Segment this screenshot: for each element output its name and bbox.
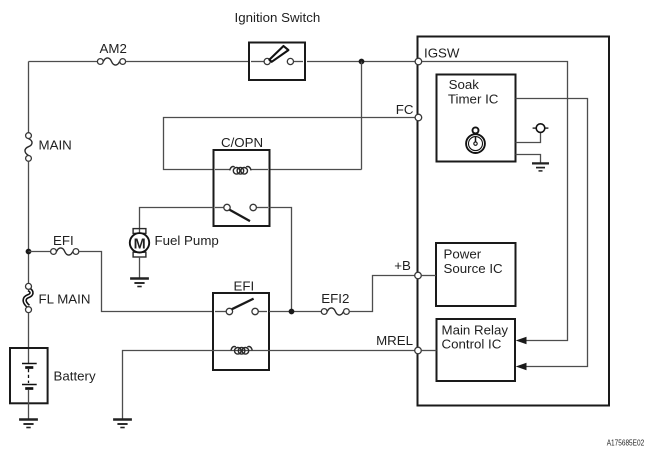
label +B [394,258,411,273]
arrow into main relay control IC from soak timer line [516,363,527,370]
label EFI2 [321,291,349,306]
svg-text:C/OPN: C/OPN [221,135,263,150]
relay C\OPN [214,150,270,226]
svg-text:FL MAIN: FL MAIN [39,291,91,306]
wire EFI fuse to EFI relay switch [79,252,213,312]
wire FC from ECU to C\OPN [164,118,416,170]
inductor coil of C\OPN relay [230,167,251,175]
switch contacts of EFI relay [215,299,267,315]
ignition switch SW1 [249,43,305,81]
label Fuel Pump [155,233,219,248]
label figure number A175685E02 [607,437,645,447]
label C/OPN [221,135,263,150]
svg-text:Timer IC: Timer IC [448,92,499,107]
label FC [396,102,414,117]
wire AM2 feed horizontal [29,61,98,63]
wire soak timer IC to output circle [516,133,541,143]
terminal +B [415,272,422,279]
wire C\OPN coil output to ignition branch [270,169,362,171]
svg-text:MAIN: MAIN [39,137,72,152]
svg-text:EFI2: EFI2 [321,291,349,306]
output circle symbol [533,124,549,133]
svg-text:Power: Power [444,247,482,262]
svg-text:M: M [134,236,146,252]
wire left bus from AM2 corner down to MAIN fuse [28,62,30,133]
svg-text:EFI: EFI [53,233,74,248]
svg-text:Soak: Soak [449,77,480,92]
fusible link FL MAIN [25,283,32,312]
svg-text:FC: FC [396,102,414,117]
arrow into main relay control IC from IGSW line [516,337,527,344]
fuse AM2 [97,58,125,65]
timer icon inside soak timer IC [466,127,485,153]
wire C\OPN switch to fuel pump [140,208,214,234]
wire EFI2 fuse to +B terminal [349,276,414,312]
inductor coil of EFI relay [231,347,252,355]
label MREL [376,333,413,348]
switch contacts of C\OPN relay [215,204,268,221]
label EFI relay [234,279,255,294]
fuse EFI [51,248,79,255]
wire MREL terminal into main relay control IC [421,350,436,352]
wire EFI relay output to EFI2 fuse [269,311,321,313]
wire soak timer IC to main relay control IC [516,99,588,367]
label MAIN [39,137,72,152]
svg-text:Source IC: Source IC [444,261,504,276]
fuse MAIN [25,133,32,162]
label EFI fuse [53,233,74,248]
label Ignition Switch [235,10,321,25]
wire +B terminal into power source IC [421,275,436,277]
svg-text:IGSW: IGSW [424,45,460,60]
wire MREL from ECU through EFI relay coil to ground [123,351,415,420]
svg-text:EFI: EFI [234,279,255,294]
ground battery [19,420,38,428]
junction dot battery bus / EFI fuse [26,249,32,255]
junction dot EFI relay output / C\OPN feed [289,309,295,315]
svg-text:Battery: Battery [54,369,96,384]
label Battery [54,369,96,384]
battery B1 [10,348,48,419]
label FL MAIN [39,291,91,306]
terminal MREL [415,347,422,354]
relay EFI [213,293,269,370]
svg-text:MREL: MREL [376,333,413,348]
label IGSW [424,45,460,60]
wire AM2 fuse to ignition switch [126,61,249,63]
wire branch down from junction to C\OPN coil line [361,62,363,170]
wire soak timer IC to internal ground [516,155,541,163]
fuse EFI2 [321,308,349,315]
svg-text:+B: +B [394,258,411,273]
wire FL MAIN to battery [28,313,30,364]
ground MREL return [113,420,132,428]
ground fuel pump [130,279,149,287]
wire C\OPN switch right to EFI relay output junction [270,208,292,312]
wire junction to EFI fuse [29,251,51,253]
ECU box [418,37,610,406]
terminal IGSW [415,58,422,65]
svg-text:Fuel Pump: Fuel Pump [155,233,219,248]
junction dot ignition/C\OPN branch [359,59,365,65]
IC U3 Main Relay Control [437,319,516,381]
svg-text:AM2: AM2 [100,41,127,56]
terminal FC [415,114,422,121]
motor M fuel pump [130,229,149,257]
svg-text:Control IC: Control IC [442,336,502,351]
label AM2 [100,41,127,56]
wire IGSW terminal to main relay control IC [422,62,568,341]
svg-text:A175685E02: A175685E02 [607,437,645,447]
IC U2 Power Source [436,243,516,306]
svg-text:Ignition Switch: Ignition Switch [235,10,321,25]
svg-text:Main Relay: Main Relay [442,322,509,337]
wire ignition switch to IGSW terminal [307,61,415,63]
wire left bus MAIN fuse to FL MAIN [28,161,30,283]
IC U1 Soak Timer [437,75,516,162]
wire fuel pump to ground [139,257,141,278]
ground soak timer [532,163,549,171]
